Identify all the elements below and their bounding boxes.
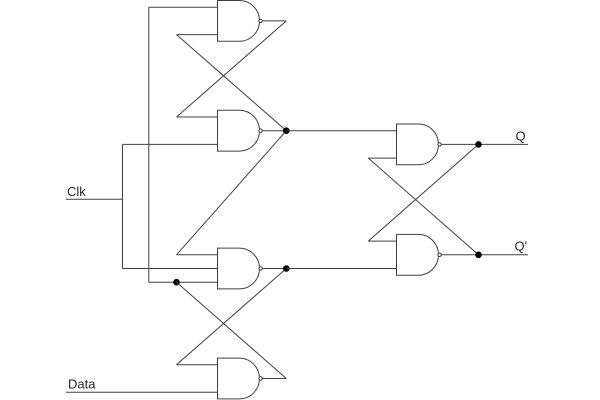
- node: junction dot at U6 output: [475, 252, 482, 259]
- wire: diagonal U1 output to U2 top input corner: [177, 21, 287, 117]
- wire: Data input line into U4 bottom input: [66, 391, 218, 393]
- wire: horizontal into U4 top input: [177, 364, 218, 366]
- wire: U3 output node across to U6 bottom input: [286, 268, 396, 270]
- wire: diagonal from junction to U4 output line end: [177, 282, 287, 378]
- wire: diagonal U5 output node down to U6 top input corner: [368, 144, 478, 241]
- svg-text:Clk: Clk: [67, 184, 86, 199]
- svg-text:Data: Data: [68, 376, 96, 391]
- nand gate U4 (bottom): [218, 358, 263, 399]
- wire: top feedback horizontal into gate U1 top input: [149, 6, 218, 8]
- wire: diagonal U2 output node to U1 bottom input corner: [177, 35, 287, 131]
- svg-text:Q: Q: [516, 129, 526, 144]
- node: junction dot on U3 bottom input wire: [173, 279, 180, 286]
- wire: horizontal into U1 bottom input: [177, 34, 218, 36]
- nand gate U5 (output latch top): [397, 124, 442, 165]
- wire: U1 output stub: [262, 20, 286, 22]
- node: junction dot at U3 output: [283, 265, 290, 272]
- wire: horizontal into U2 top input: [177, 116, 218, 118]
- nand gate U1 (top): [218, 1, 263, 42]
- wire: diagonal U3 output node down to U4 top input corner: [177, 269, 287, 365]
- wire: horizontal into U5 bottom input: [368, 157, 396, 159]
- wire: U2 output line to junction: [262, 130, 286, 132]
- wire: horizontal into gate U3 bottom input: [149, 281, 218, 283]
- wire: Clk input line: [66, 198, 123, 200]
- wire: long left vertical (U4 output node down left side): [148, 7, 150, 282]
- svg-text:Q': Q': [515, 239, 528, 254]
- wire: U5 output line to Q: [441, 143, 528, 145]
- wire: U4 output stub: [262, 378, 286, 380]
- wire: U3 output line to junction: [262, 268, 286, 270]
- wire: Clk branch into U3 middle input: [123, 268, 218, 270]
- wire: horizontal into U6 top input: [368, 240, 396, 242]
- wire: horizontal into U3 top input: [177, 254, 218, 256]
- wire: U6 output line to Q': [441, 254, 528, 256]
- wire: diagonal U2 output node down to U3 top input corner: [177, 131, 287, 255]
- nand gate U6 (output latch bottom): [397, 234, 442, 275]
- node: junction dot at U5 output: [475, 141, 482, 148]
- nand gate U3 (three inputs): [218, 248, 263, 289]
- wire: Clk vertical distribution: [122, 144, 124, 268]
- wire: diagonal U6 output node up to U5 bottom input corner: [368, 158, 478, 255]
- wire: Clk branch into U2 bottom input: [123, 143, 218, 145]
- node: junction dot at U2 output: [283, 127, 290, 134]
- nand gate U2: [218, 110, 263, 151]
- wire: U2 output node across to U5 top input: [286, 130, 396, 132]
